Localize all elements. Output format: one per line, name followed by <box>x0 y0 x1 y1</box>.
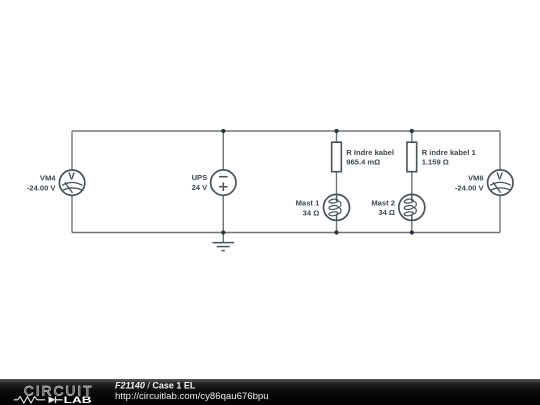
label Mast 1 value <box>296 199 320 218</box>
svg-text:F21140 / Case 1 EL: F21140 / Case 1 EL <box>115 380 196 390</box>
node junction top branch 2 <box>410 129 414 133</box>
svg-text:V: V <box>496 172 503 183</box>
svg-text:R Indre kabel: R Indre kabel <box>346 148 394 157</box>
resistor R indre kabel 1 <box>407 142 417 172</box>
svg-text:34 Ω: 34 Ω <box>303 208 320 217</box>
label VM4 value <box>27 174 57 193</box>
svg-text:-24.00 V: -24.00 V <box>455 183 485 192</box>
wire bottom rail <box>72 232 500 234</box>
footer title F21140 / Case 1 EL <box>115 380 196 390</box>
node junction top UPS <box>221 129 225 133</box>
footer bar <box>0 379 540 405</box>
node junction bottom branch 2 <box>410 230 414 234</box>
label Mast 2 value <box>371 198 395 217</box>
svg-text:34 Ω: 34 Ω <box>378 208 395 217</box>
node junction bottom branch 1 <box>334 230 338 234</box>
svg-text:VM6: VM6 <box>468 174 484 183</box>
svg-text:R indre kabel 1: R indre kabel 1 <box>422 148 477 157</box>
svg-text:1.159 Ω: 1.159 Ω <box>422 158 449 167</box>
lamp Mast 2 <box>399 194 425 220</box>
wire left branch (VM4) <box>71 131 73 233</box>
svg-text:-24.00 V: -24.00 V <box>27 184 57 193</box>
label R Indre kabel value <box>346 148 394 167</box>
wire top rail <box>72 130 500 132</box>
CircuitLab logo diode <box>49 396 63 403</box>
ground <box>212 243 234 251</box>
wire UPS branch <box>222 131 224 233</box>
source UPS <box>211 170 236 195</box>
svg-text:Mast 1: Mast 1 <box>296 199 320 208</box>
voltmeter VM6 <box>488 170 513 195</box>
voltmeter VM4 <box>59 170 84 195</box>
svg-text:24 V: 24 V <box>192 183 209 192</box>
wire branch R indre kabel 1 / Mast 2 <box>411 131 413 233</box>
wire branch R Indre kabel / Mast 1 <box>336 131 338 233</box>
CircuitLab logo CIRCUIT outline <box>24 384 94 399</box>
label R indre kabel 1 value <box>422 148 477 167</box>
node junction top branch 1 <box>334 129 338 133</box>
wire ground stub <box>222 233 224 243</box>
footer url <box>115 391 269 402</box>
svg-text:LAB: LAB <box>64 395 92 405</box>
label UPS value <box>192 173 209 192</box>
svg-text:http://circuitlab.com/cy86qau6: http://circuitlab.com/cy86qau676bpu <box>115 391 269 402</box>
label VM6 value <box>455 174 485 193</box>
svg-text:VM4: VM4 <box>40 174 56 183</box>
svg-text:V: V <box>68 172 75 183</box>
resistor R Indre kabel <box>332 142 342 172</box>
svg-text:UPS: UPS <box>192 173 208 182</box>
svg-text:Mast 2: Mast 2 <box>371 198 395 207</box>
wire right branch (VM6) <box>499 131 501 233</box>
CircuitLab logo resistor zigzag <box>14 397 45 403</box>
lamp Mast 1 <box>324 194 350 220</box>
svg-text:965.4 mΩ: 965.4 mΩ <box>346 158 380 167</box>
CircuitLab logo LAB <box>64 395 92 405</box>
node junction bottom ground <box>221 230 225 234</box>
